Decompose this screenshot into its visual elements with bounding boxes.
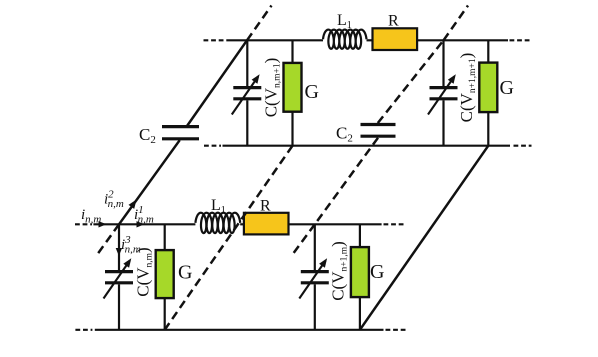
dashed diagonal continuation below node n,m bbox=[97, 224, 120, 255]
svg-text:R: R bbox=[388, 13, 399, 30]
wire bbox=[291, 112, 293, 146]
current arrow i3 n,m bbox=[116, 248, 122, 256]
label C(V n,m) bbox=[134, 247, 155, 296]
resistor R (bottom) bbox=[244, 213, 289, 235]
wire bbox=[359, 224, 361, 247]
wire bbox=[240, 223, 244, 225]
dashed diagonal F: rail link between ground rails bbox=[165, 146, 293, 330]
wire bbox=[289, 223, 382, 225]
node line m right continuation bbox=[384, 223, 404, 225]
resistor R (top) bbox=[373, 28, 418, 50]
wire bbox=[442, 100, 444, 145]
current arrow i2 bbox=[129, 200, 137, 209]
node line m+1 left continuation bbox=[204, 39, 227, 41]
wire bbox=[487, 112, 489, 146]
node line m+1 right continuation bbox=[510, 39, 532, 41]
rail m+1 right continuation bbox=[514, 145, 532, 147]
svg-text:R: R bbox=[260, 198, 271, 215]
conductance G box (n,m) bbox=[156, 250, 174, 298]
conductance G box (n+1,m) bbox=[351, 247, 369, 297]
current arrow i1 n,m bbox=[137, 221, 145, 227]
svg-text:G: G bbox=[305, 81, 319, 103]
label C(V n+1,m+1) bbox=[457, 53, 478, 123]
inductor L1 (top) bbox=[323, 30, 367, 49]
inductor L1 (bottom) bbox=[195, 213, 240, 233]
wire bbox=[487, 40, 489, 62]
wire bbox=[359, 297, 361, 330]
wire bbox=[291, 40, 293, 63]
svg-text:G: G bbox=[370, 261, 384, 283]
conductance G box (n+1,m+1) bbox=[479, 63, 497, 113]
varactor C(V n+1,m) bbox=[299, 258, 329, 298]
solid diagonal rail link right column bbox=[360, 146, 488, 330]
capacitor C2 (right) bbox=[361, 125, 396, 137]
rail (ground line) m bbox=[95, 329, 384, 331]
node line m left continuation bbox=[75, 223, 92, 225]
varactor C(V n+1,m+1) bbox=[428, 74, 458, 114]
dashed diagonal (C2 to node n+1,m+1) bbox=[378, 40, 444, 123]
dashed diagonal continuation above node n+1,m+1 bbox=[444, 6, 469, 41]
wire bbox=[118, 284, 120, 329]
rail (ground line) m+1 bbox=[223, 145, 511, 147]
label C(V n+1,m) bbox=[329, 241, 350, 301]
varactor C(V n,m) bbox=[104, 258, 134, 298]
wire bbox=[118, 224, 120, 270]
capacitor C2 (left) bbox=[162, 127, 199, 139]
svg-text:G: G bbox=[500, 77, 514, 99]
wire bbox=[164, 224, 166, 250]
node line m bbox=[93, 223, 195, 225]
wire bbox=[314, 224, 316, 270]
conductance G box (n,m+1) bbox=[284, 63, 302, 112]
rail m right continuation bbox=[386, 329, 408, 331]
wire bbox=[417, 39, 508, 41]
wire diagonal upper (C2 to node n,m+1) bbox=[186, 40, 247, 127]
varactor C(V n,m+1) bbox=[232, 74, 261, 114]
wire bbox=[314, 284, 316, 329]
wire bbox=[442, 40, 444, 86]
wire bbox=[246, 100, 248, 145]
label C(V n,m+1) bbox=[262, 58, 283, 118]
wire bbox=[246, 40, 248, 86]
dashed diagonal continuation below node n+1,m bbox=[293, 224, 315, 254]
dashed diagonal (node n+1,m to C2) bbox=[315, 138, 378, 225]
svg-text:G: G bbox=[178, 262, 192, 284]
wire diagonal lower (node n,m to C2) bbox=[119, 140, 180, 224]
current arrow i n,m bbox=[99, 221, 107, 227]
rail m left continuation bbox=[75, 329, 92, 331]
wire bbox=[367, 39, 373, 41]
node line m+1 bbox=[227, 39, 324, 41]
rail m+1 left continuation bbox=[204, 145, 221, 147]
wire bbox=[164, 298, 166, 330]
dashed diagonal continuation above node n,m+1 bbox=[247, 6, 272, 41]
